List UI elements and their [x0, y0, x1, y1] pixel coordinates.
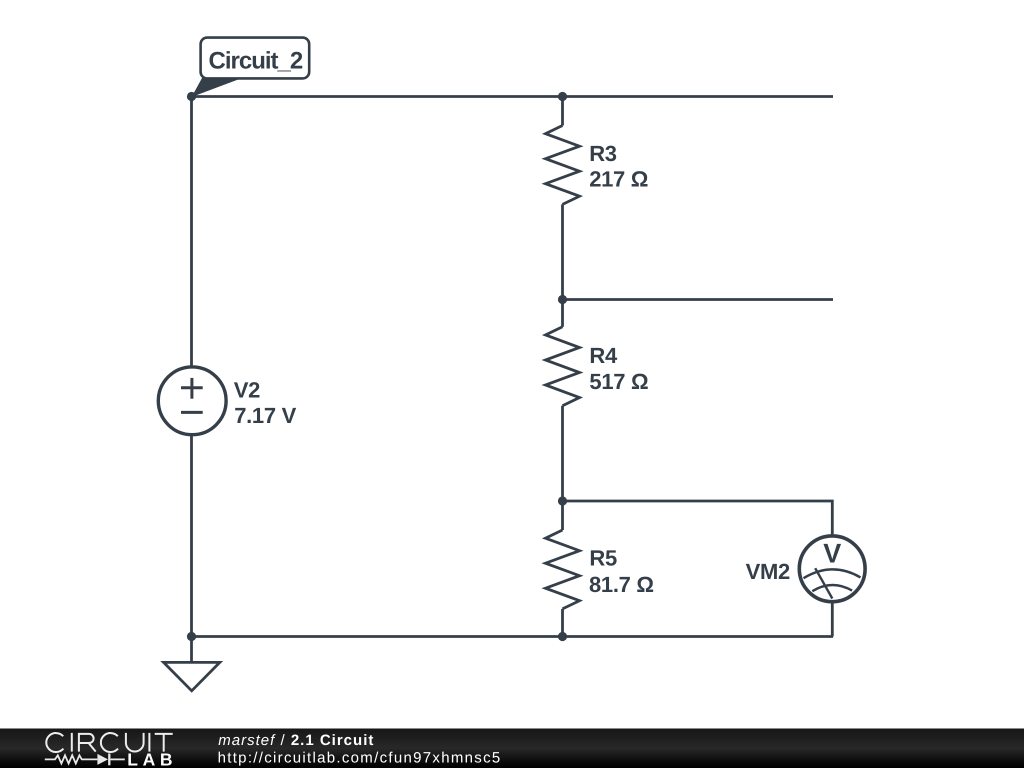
node A top-left junction dot	[187, 92, 196, 101]
label R3 value 217 Ohm	[589, 141, 648, 192]
CircuitLab logo: resistor-diode squiggle	[45, 755, 125, 763]
svg-text:LAB: LAB	[127, 750, 177, 768]
ground	[164, 637, 220, 691]
node: R5 bottom junction dot	[558, 632, 567, 641]
label R5 value 81.7 Ohm	[589, 545, 654, 597]
svg-text:81.7 Ω: 81.7 Ω	[589, 572, 654, 597]
svg-text:VM2: VM2	[746, 559, 790, 584]
svg-text:R3: R3	[589, 141, 617, 166]
CircuitLab logo: diode symbol	[97, 754, 109, 766]
node D: R4/R5 junction dot	[558, 496, 567, 505]
resistor R5	[546, 501, 580, 637]
resistor R4	[546, 300, 580, 502]
footer bar	[0, 729, 1024, 768]
wire: top rail from node A to open end	[192, 95, 834, 98]
wire: left rail lower (V2 bottom terminal to node B)	[190, 434, 193, 636]
voltage source V2	[158, 367, 226, 435]
svg-text:Circuit_2: Circuit_2	[209, 47, 303, 74]
svg-text:marstef / 2.1 Circuit: marstef / 2.1 Circuit	[218, 732, 374, 749]
wire: horizontal at node D (R4/R5 junction) to voltmeter top	[563, 501, 833, 536]
svg-text:217 Ω: 217 Ω	[589, 167, 648, 192]
label R4 value 517 Ohm	[589, 343, 648, 394]
wire: bottom rail	[192, 635, 834, 638]
svg-text:R5: R5	[589, 545, 617, 570]
voltmeter VM2	[799, 536, 865, 602]
node: R3 top junction dot	[558, 92, 567, 101]
callout label Circuit_2	[192, 38, 310, 97]
svg-text:7.17 V: 7.17 V	[234, 403, 296, 428]
svg-text:V: V	[823, 539, 841, 569]
svg-text:R4: R4	[589, 343, 618, 368]
resistor R3	[546, 97, 580, 300]
node C: R3/R4 junction dot	[558, 295, 567, 304]
wire: voltmeter bottom lead down to bottom rail	[831, 602, 834, 637]
svg-text:V2: V2	[234, 377, 260, 402]
label V2 value 7.17 V	[234, 377, 297, 428]
wire: left rail upper (node A down to V2 top terminal)	[190, 97, 193, 366]
svg-text:517 Ω: 517 Ω	[589, 369, 648, 394]
wire: middle horizontal at node C (R3/R4 junction) to open end	[563, 298, 834, 301]
svg-text:http://circuitlab.com/cfun97xh: http://circuitlab.com/cfun97xhmnsc5	[218, 750, 502, 767]
node B: bottom-left junction dot	[187, 632, 196, 641]
CircuitLab logo: CIRCUIT wordmark (drawn thin letters)	[46, 733, 172, 752]
